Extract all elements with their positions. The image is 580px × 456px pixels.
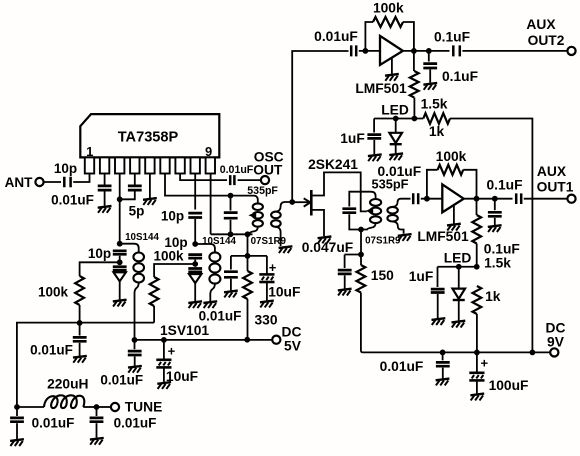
label 10p coil A xyxy=(88,246,111,261)
resistor R3 330 xyxy=(243,256,252,340)
terminal TUNE xyxy=(111,403,119,411)
capacitor 1uF amp2 xyxy=(431,267,445,318)
capacitor 10uF osc electrolytic xyxy=(259,256,277,301)
ground 10uF osc xyxy=(260,301,274,308)
svg-text:0.1uF: 0.1uF xyxy=(442,69,478,84)
svg-text:DC: DC xyxy=(282,325,302,340)
label 10p pin8 xyxy=(161,209,184,224)
capacitor 0.01uF amp2 input xyxy=(413,193,418,204)
svg-text:0.01uF: 0.01uF xyxy=(380,359,424,374)
terminal AUX OUT2 xyxy=(567,47,575,55)
node amp1 bypass xyxy=(426,48,432,54)
svg-text:5V: 5V xyxy=(284,339,302,354)
node tank bottom feed xyxy=(245,231,251,237)
label DC 9V xyxy=(546,321,566,350)
label LMF501 amp1 xyxy=(355,81,407,96)
label 330 R3 xyxy=(254,312,277,327)
svg-text:1k: 1k xyxy=(485,289,501,304)
wire tune node to terminal xyxy=(97,406,111,408)
capacitor 535pF IF xyxy=(342,209,361,230)
wire pin8 cap to coilB node xyxy=(194,219,196,244)
label 0.01uF 9V xyxy=(380,359,424,374)
capacitor 0.01uF AGC xyxy=(73,323,87,356)
svg-text:100uF: 100uF xyxy=(489,378,529,393)
label 0.01uF osc supply xyxy=(199,309,242,324)
ground 0.047uF xyxy=(338,289,352,296)
transformer T1 tap wedge xyxy=(248,212,256,219)
wire pin5 down xyxy=(149,174,151,199)
svg-text:AUX: AUX xyxy=(526,17,556,32)
capacitor 0.01uF osc out xyxy=(230,175,234,185)
ground varactor A xyxy=(113,300,127,307)
svg-text:100k: 100k xyxy=(436,149,467,164)
op-amp U3 LMF501 triangle xyxy=(442,184,463,212)
svg-text:1.5k: 1.5k xyxy=(484,255,511,270)
label 1k R6 xyxy=(429,124,445,139)
svg-text:5p: 5p xyxy=(129,204,145,219)
wire 10p coilB to varactor node xyxy=(194,260,196,264)
capacitor 10p coil A xyxy=(113,251,127,254)
svg-text:1k: 1k xyxy=(429,124,445,139)
svg-text:2SK241: 2SK241 xyxy=(308,157,358,172)
capacitor 0.01uF 9V xyxy=(436,352,450,378)
label 07S1R9 T2 xyxy=(365,235,401,246)
label 535pF oscillator xyxy=(247,185,278,197)
svg-text:100k: 100k xyxy=(153,249,184,264)
node LED1 xyxy=(393,116,399,122)
label OSC xyxy=(254,150,284,165)
IC U1 pins 1-9 xyxy=(85,157,215,173)
wire varactorB node to 100k2 xyxy=(154,264,195,277)
label 100k R2 xyxy=(153,249,184,264)
node coil B top xyxy=(192,241,198,247)
svg-text:0.01uF: 0.01uF xyxy=(220,164,254,176)
ground amp2 xyxy=(447,224,461,231)
wire amp1 output xyxy=(403,50,450,52)
label 220uH xyxy=(47,377,88,392)
svg-text:1uF: 1uF xyxy=(409,269,434,284)
wire ANT to C 10p xyxy=(44,181,61,183)
wire pin3 node down to coilA node xyxy=(119,199,121,243)
node 330 on 5V rail xyxy=(244,337,250,343)
ground amp1 bypass cap xyxy=(423,83,437,90)
svg-text:10uF: 10uF xyxy=(166,369,198,384)
node tank top 535pF xyxy=(228,193,234,199)
svg-text:0.01uF: 0.01uF xyxy=(30,343,73,358)
wire pin2 down xyxy=(104,174,106,186)
svg-text:+: + xyxy=(168,344,176,359)
wire amp2 output xyxy=(464,198,513,200)
wire 100k2 to AGC rail xyxy=(153,306,155,323)
resistor R8 100k feedback2 xyxy=(427,165,477,199)
wire 5V rail xyxy=(135,339,273,341)
label 1uF amp2 xyxy=(409,269,434,284)
resistor R9 1.5k amp2 xyxy=(472,199,481,267)
wire varactorA node to 100k1 xyxy=(80,262,120,276)
resistor R5 1.5k xyxy=(410,51,419,119)
svg-text:0.01uF: 0.01uF xyxy=(314,29,358,44)
svg-text:10p: 10p xyxy=(54,161,77,176)
ground pin5 xyxy=(143,198,157,205)
svg-text:0.01uF: 0.01uF xyxy=(32,416,75,431)
node tune left xyxy=(14,404,20,410)
label LMF501 amp2 xyxy=(417,229,469,244)
capacitor 0.01uF 5V left xyxy=(128,340,142,366)
wire mixer out to amp1 input xyxy=(292,51,348,202)
label 100uF xyxy=(489,378,529,393)
node amp1 input xyxy=(363,48,369,54)
capacitor 10p pin8 xyxy=(188,213,202,217)
label 1SV101 xyxy=(160,323,209,338)
label 10p antenna xyxy=(54,161,77,176)
node 9V bypass xyxy=(440,350,446,356)
node 100uF on rail xyxy=(474,350,480,356)
capacitor 10p coil B xyxy=(188,255,202,259)
label 535pF IF xyxy=(372,176,409,191)
label OUT xyxy=(253,163,283,178)
ground LED1 xyxy=(389,153,403,160)
label 1.5k R9 xyxy=(484,255,511,270)
label 0.047uF xyxy=(302,240,353,255)
label 0.01uF pin2 xyxy=(51,193,94,208)
svg-text:10p: 10p xyxy=(161,209,184,224)
label 1uF amp1 xyxy=(340,131,365,146)
IC U1 TA7358P body xyxy=(80,114,219,157)
svg-text:OUT: OUT xyxy=(253,163,283,178)
node varactor B xyxy=(192,261,198,267)
ground 10uF 5V xyxy=(157,382,171,389)
inductor L1 220uH xyxy=(44,395,84,408)
ground AGC cap xyxy=(73,356,87,363)
ground amp1 xyxy=(385,74,399,81)
ground LED2 xyxy=(452,321,466,328)
svg-text:100k: 100k xyxy=(373,1,404,16)
svg-text:0.047uF: 0.047uF xyxy=(302,240,353,255)
svg-text:07S1R9: 07S1R9 xyxy=(251,236,287,247)
wire out2 cap to terminal xyxy=(462,50,567,52)
wire tank feed down xyxy=(247,234,249,256)
label LED1 xyxy=(381,103,409,118)
svg-text:0.01uF: 0.01uF xyxy=(51,193,94,208)
transformer T2 tap wedge xyxy=(366,208,374,215)
wire osc supply node horizontal xyxy=(231,255,267,257)
label 10p coil B xyxy=(164,235,187,250)
node osc supply xyxy=(245,253,251,259)
wire T2 secondary bottom to ground xyxy=(393,222,404,234)
varactor diode D1 1SV101 xyxy=(113,267,127,300)
node amp2 bypass xyxy=(492,196,498,202)
node 1.5k bottom xyxy=(412,116,418,122)
wire T2 secondary top to amp2 xyxy=(393,199,411,207)
svg-text:TUNE: TUNE xyxy=(125,400,163,415)
node tank bottom 535pF xyxy=(228,231,234,237)
wire 9V rail xyxy=(363,351,551,353)
terminal OSC OUT xyxy=(261,176,269,184)
node varactor A xyxy=(117,259,123,265)
capacitor 0.1uF out1 series xyxy=(516,193,521,204)
coil B 10S144 winding xyxy=(195,244,220,301)
wire T1 secondary top to gate line xyxy=(276,202,292,212)
capacitor 0.01uF amp1 input xyxy=(351,45,356,56)
wire pin4 down xyxy=(134,174,136,186)
ground Q1 source xyxy=(318,237,332,244)
svg-text:ANT: ANT xyxy=(5,175,33,190)
ground T2 secondary xyxy=(398,234,412,241)
transformer T2 primary winding xyxy=(361,199,381,230)
label 1.5k R5 xyxy=(421,97,448,112)
svg-text:+: + xyxy=(481,355,489,370)
resistor R6 1k xyxy=(423,113,450,124)
label AUX OUT2 xyxy=(526,17,564,48)
wire pin9 down tank left side xyxy=(210,174,212,235)
label 0.1uF out1 xyxy=(486,177,522,192)
node 1.5k2 bottom xyxy=(474,264,480,270)
svg-text:150: 150 xyxy=(371,268,394,283)
ground osc supply cap xyxy=(224,291,238,298)
wire pin4 cap to pin3 node xyxy=(120,192,135,200)
capacitor 10uF 5V electrolytic xyxy=(156,340,175,382)
svg-text:0.01uF: 0.01uF xyxy=(377,164,421,179)
capacitor 535pF oscillator xyxy=(224,196,238,235)
label 150 R7 xyxy=(371,268,394,283)
svg-text:1.5k: 1.5k xyxy=(421,97,448,112)
wire out1 cap to terminal xyxy=(524,198,568,200)
terminal ANT xyxy=(5,175,44,190)
svg-text:10S144: 10S144 xyxy=(202,236,236,247)
wire C 10p to pin1 xyxy=(73,174,89,183)
node amp1 output xyxy=(411,48,417,54)
varactor diode D2 1SV101 xyxy=(188,269,202,302)
label LED2 xyxy=(444,250,472,265)
svg-text:0.1uF: 0.1uF xyxy=(484,242,520,257)
svg-text:9V: 9V xyxy=(547,335,565,350)
label 100k R8 xyxy=(436,149,467,164)
label TUNE xyxy=(125,400,163,415)
label 0.01uF tune left xyxy=(32,416,75,431)
wire pin8 down xyxy=(194,174,196,210)
capacitor 0.1uF amp1 bypass xyxy=(423,51,437,83)
node 10uF on 5V rail xyxy=(161,337,167,343)
label 1k R10 xyxy=(485,289,501,304)
label 100k R1 xyxy=(38,285,69,300)
svg-text:+: + xyxy=(269,260,277,275)
svg-text:10p: 10p xyxy=(88,246,111,261)
wire amp1 cap to triangle xyxy=(359,50,380,52)
svg-text:10S144: 10S144 xyxy=(125,232,159,243)
svg-text:DC: DC xyxy=(546,321,566,336)
svg-text:0.1uF: 0.1uF xyxy=(486,177,522,192)
resistor R2 100k xyxy=(150,277,159,306)
node gate junction xyxy=(289,199,295,205)
svg-text:0.01uF: 0.01uF xyxy=(199,309,242,324)
resistor R10 1k amp2 xyxy=(473,286,482,352)
transformer T1 primary winding xyxy=(249,203,263,234)
svg-text:TA7358P: TA7358P xyxy=(118,130,179,146)
node right rail on 9V xyxy=(530,350,536,356)
wire T2 tank top xyxy=(349,192,375,207)
transistor Q1 2SK241 xyxy=(304,172,367,236)
wire 1k to right rail xyxy=(450,119,532,353)
terminal AUX OUT1 xyxy=(567,195,575,203)
op-amp U2 LMF501 triangle xyxy=(380,36,403,65)
svg-text:0.1uF: 0.1uF xyxy=(434,30,470,45)
terminal DC 5V xyxy=(272,336,280,344)
resistor R4 100k feedback1 xyxy=(365,17,414,51)
terminal DC 9V xyxy=(550,348,558,356)
resistor R1 100k xyxy=(75,276,84,305)
capacitor 0.01uF osc supply xyxy=(224,256,238,291)
svg-text:10uF: 10uF xyxy=(268,284,300,299)
label AUX OUT1 xyxy=(537,164,574,195)
wire amp2 ground stub xyxy=(453,206,455,224)
label 0.1uF out2 xyxy=(434,30,470,45)
svg-text:LED: LED xyxy=(381,103,409,118)
label 0.01uF tune right xyxy=(114,416,157,431)
label 0.01uF 5V xyxy=(100,373,143,388)
capacitor 1uF amp1 xyxy=(367,119,381,155)
coil A 10S144 winding xyxy=(120,244,144,340)
wire AGC rail xyxy=(17,323,154,407)
transformer T2 secondary winding xyxy=(387,207,397,222)
label 10S144 coil A xyxy=(125,232,159,243)
ground amp2 bypass cap xyxy=(488,225,502,232)
wire tank bottom rail xyxy=(211,233,253,235)
capacitor 0.1uF out2 series xyxy=(453,45,460,56)
capacitor 0.01uF pin2 xyxy=(98,186,112,190)
label 07S1R9 T1 xyxy=(251,236,287,247)
wire tune left to inductor xyxy=(17,406,44,408)
svg-text:0.01uF: 0.01uF xyxy=(114,416,157,431)
ground varactor B xyxy=(188,301,202,308)
label 0.01uF amp1 xyxy=(314,29,358,44)
label 10uF osc xyxy=(268,284,300,299)
ground T1 secondary xyxy=(279,246,293,253)
label DC 5V xyxy=(282,325,302,354)
node LED2 xyxy=(456,264,462,270)
svg-text:LMF501: LMF501 xyxy=(417,229,469,244)
label 10S144 coil B xyxy=(202,236,236,247)
wire osc cap to OSC OUT terminal xyxy=(238,179,261,181)
ground tune right cap xyxy=(90,438,104,445)
wire tank top rail to primary xyxy=(231,196,258,203)
wire T1 secondary bottom to ground xyxy=(276,227,281,246)
node coilA bottom on 5V rail xyxy=(132,337,138,343)
wire inductor to tune node xyxy=(83,406,96,408)
wire IF supply left xyxy=(345,254,361,256)
wire pin6 to tank top rail xyxy=(165,174,231,196)
wire 10p coilA to varactor node xyxy=(119,256,121,262)
wire T2 bottom down xyxy=(360,230,362,255)
node coil A top xyxy=(117,241,123,247)
ground pin2 xyxy=(98,206,112,213)
ground coil B xyxy=(203,301,217,308)
IC U1 pin 1 number xyxy=(86,144,93,159)
label 0.01uF AGC xyxy=(30,343,73,358)
capacitor 10p antenna xyxy=(64,177,70,188)
node IF supply xyxy=(358,252,364,258)
wire 100k1 to AGC rail xyxy=(79,305,81,323)
capacitor 0.01uF tune left xyxy=(10,407,24,439)
svg-text:LMF501: LMF501 xyxy=(355,81,407,96)
label 0.1uF amp2 bypass xyxy=(484,242,520,257)
wire amp2 cap to triangle xyxy=(421,198,443,200)
ground 5V left cap xyxy=(128,366,142,373)
wire pin7 to osc out cap xyxy=(180,174,227,181)
capacitor 0.1uF amp2 bypass xyxy=(488,199,502,225)
ground tune left cap xyxy=(10,439,24,446)
label 2SK241 xyxy=(308,157,358,172)
resistor R7 150 xyxy=(357,255,366,353)
svg-text:AUX: AUX xyxy=(537,164,567,179)
svg-text:535pF: 535pF xyxy=(247,185,278,197)
node T2 bottom xyxy=(358,227,364,233)
svg-text:220uH: 220uH xyxy=(47,377,88,392)
svg-text:LED: LED xyxy=(444,250,472,265)
label 0.1uF amp1 bypass xyxy=(442,69,478,84)
LED D3 xyxy=(389,119,402,154)
svg-text:OUT2: OUT2 xyxy=(528,33,565,48)
svg-text:1SV101: 1SV101 xyxy=(160,323,209,338)
svg-text:0.01uF: 0.01uF xyxy=(100,373,143,388)
capacitor 0.01uF tune right xyxy=(90,407,104,438)
svg-text:1uF: 1uF xyxy=(340,131,365,146)
svg-text:100k: 100k xyxy=(38,285,69,300)
ground 1uF amp2 xyxy=(432,318,446,325)
transformer T1 secondary winding xyxy=(271,212,281,227)
capacitor 100uF electrolytic xyxy=(469,352,488,393)
svg-text:330: 330 xyxy=(254,312,277,327)
node amp2 input xyxy=(424,196,430,202)
LED D4 xyxy=(452,267,465,321)
ground 1uF amp1 xyxy=(368,154,382,161)
node amp2 output xyxy=(474,196,480,202)
wire gate line xyxy=(292,201,308,203)
ground 100uF xyxy=(470,394,484,401)
wire LED1 row xyxy=(374,118,423,120)
label 5p xyxy=(129,204,145,219)
node tune right xyxy=(94,404,100,410)
node 100k1 on AGC rail xyxy=(77,320,83,326)
label 0.01uF osc out xyxy=(220,164,254,176)
wire pin2 cap to ground xyxy=(104,192,106,206)
wire pin3 down xyxy=(119,174,121,200)
IC U1 pin 9 number xyxy=(205,144,212,159)
wire amp1 ground stub xyxy=(391,58,393,74)
capacitor 5p pin4 xyxy=(128,186,142,190)
svg-text:OUT1: OUT1 xyxy=(537,180,574,195)
label 100k R4 xyxy=(373,1,404,16)
label 10uF 5V xyxy=(166,369,198,384)
ground 9V bypass cap xyxy=(436,379,450,386)
label 0.01uF amp2 xyxy=(377,164,421,179)
node pin3-5p junction xyxy=(117,196,123,202)
capacitor 0.047uF xyxy=(338,255,352,289)
svg-text:07S1R9: 07S1R9 xyxy=(365,235,401,246)
wire LED2 row xyxy=(438,266,477,268)
